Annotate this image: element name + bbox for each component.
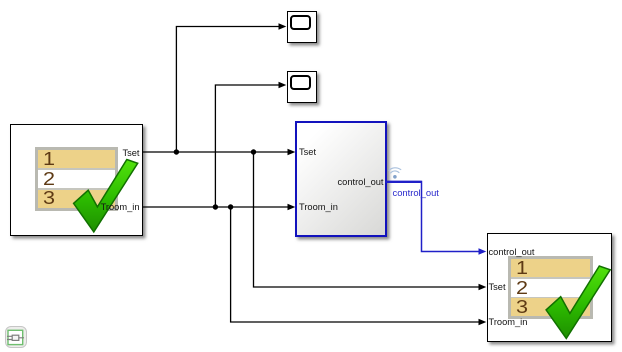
value 3 (left table) [43,189,55,207]
wire branch to scope 2 [215,85,279,207]
wire branch to scope 1 [176,27,279,153]
arrow into right block Troom_in [479,319,487,326]
value 1 (right table) [516,259,528,277]
value 2 (left table) [43,170,55,188]
junction dot (Troom/scope2) [213,204,218,209]
wireless signal icon [389,168,401,173]
table in right block [508,256,593,319]
block: controller subsystem (blue) [295,121,387,237]
junction dot (Tset/scope1) [174,149,179,154]
value 3 (right table) [516,298,528,316]
junction dot (Troom/right) [228,204,233,209]
port label Troom_in (controller in2) [299,202,338,212]
wire branch to right block Tset [254,152,480,287]
arrow into right block Tset [479,284,487,291]
port label Troom_in (right block in3) [489,317,528,327]
arrow into controller Tset [288,149,296,156]
port label Tset (left block out1) [122,148,139,158]
port label Tset (right block in2) [489,282,506,292]
port label control_out (controller out1) [338,177,384,187]
block: right sink subsystem [487,233,613,342]
block: scope 1 [287,11,318,43]
value 1 (left table) [43,150,55,168]
badge subsystem glyph [7,335,24,340]
table in left block [35,147,118,210]
wire branch to right block Troom_in [231,207,479,322]
port label control_out (right block in1) [489,247,535,257]
port label Troom_in (left block out2) [101,202,140,212]
wire control_out (blue) controller to right block [386,181,422,183]
hide/show ports badge button (bottom left) [5,326,27,349]
badge green frame [8,330,23,344]
wire Troom_in: left block to controller [143,206,289,208]
arrow into scope 1 [279,23,287,30]
port label Tset (controller in1) [299,147,316,157]
arrow into controller Troom_in [288,204,296,211]
block: left source subsystem [10,124,142,236]
value 2 (right table) [516,279,528,297]
junction dot (Tset/right) [251,149,256,154]
wire Tset: left block to controller [143,151,289,153]
signal name label control_out (blue) [393,187,439,198]
block: scope 2 [287,71,318,103]
arrow into scope 2 [279,82,287,89]
arrow into right block control_out (blue) [479,248,487,255]
